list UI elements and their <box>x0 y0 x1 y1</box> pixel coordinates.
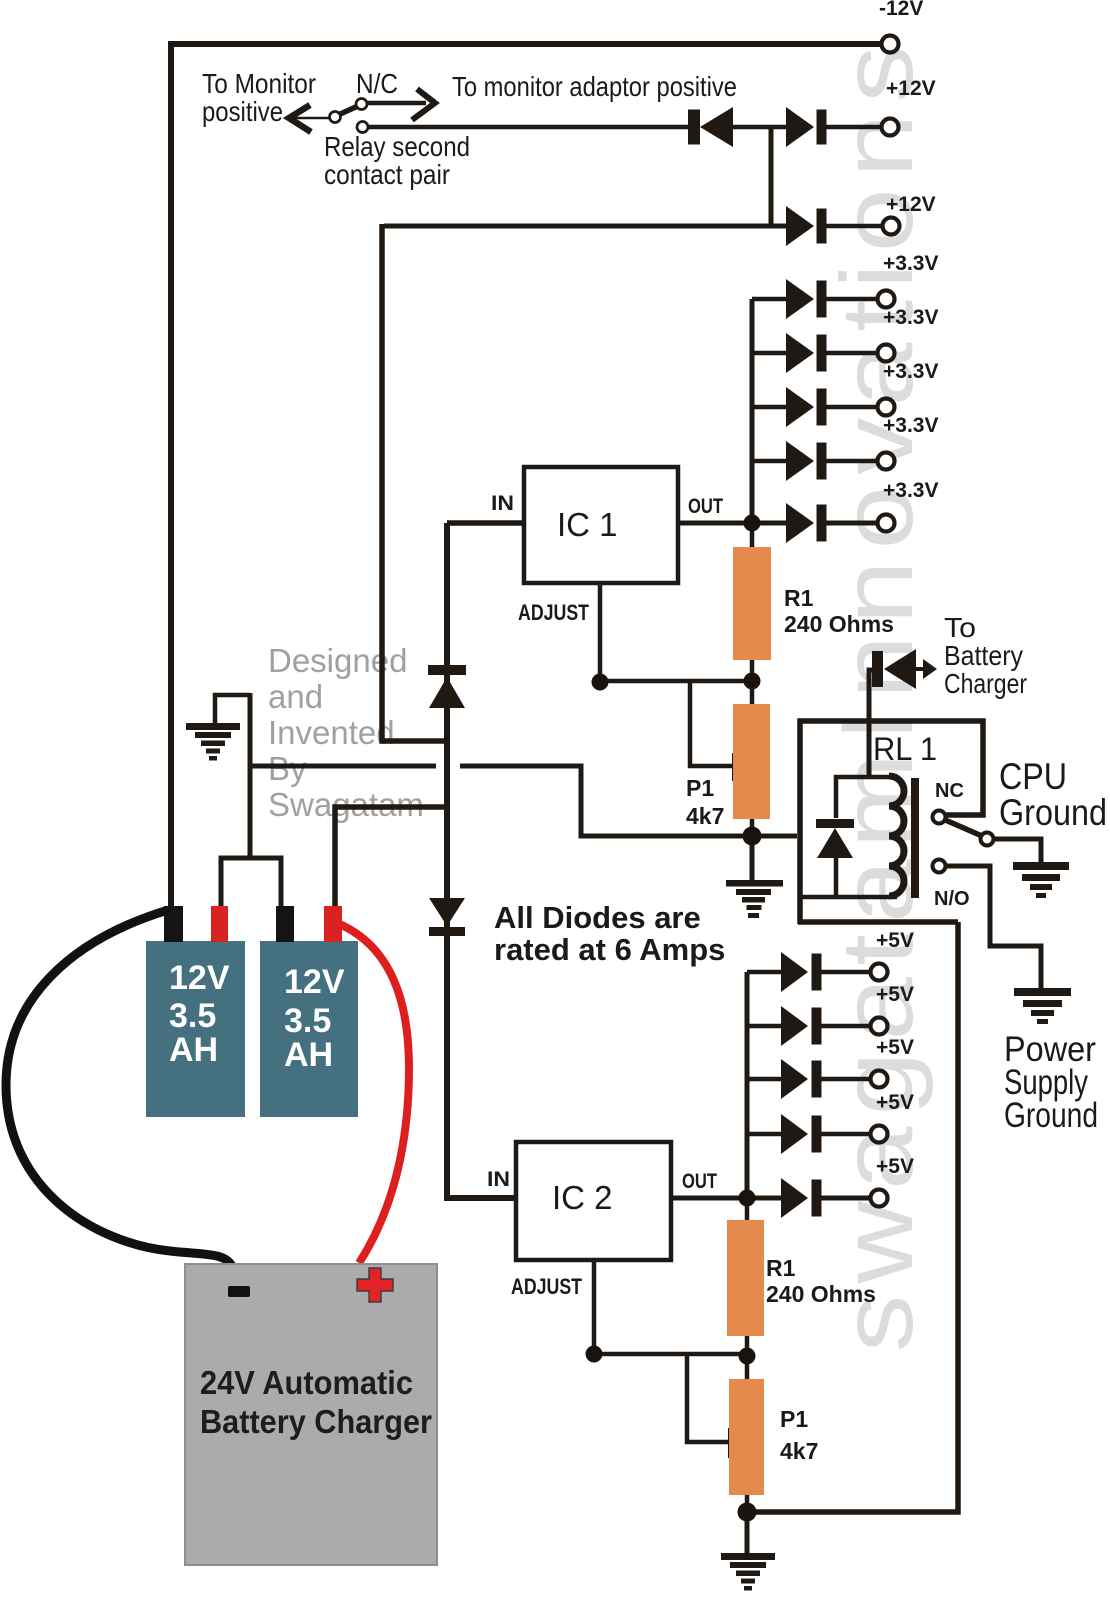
wire P1 top stub <box>750 681 755 704</box>
wire battery series link U <box>221 858 281 906</box>
svg-text:3.5: 3.5 <box>284 1002 331 1040</box>
svg-text:OUT: OUT <box>688 495 723 518</box>
svg-text:+5V: +5V <box>876 983 914 1006</box>
diode D9 series up to IC1 IN <box>428 665 466 675</box>
svg-text:To monitor adaptor positive: To monitor adaptor positive <box>452 71 737 102</box>
diode D1 battery isolation (points left) <box>688 110 700 145</box>
battery 1 positive terminal <box>211 906 228 942</box>
svg-text:+3.3V: +3.3V <box>883 306 938 329</box>
wire IC1 OUT row <box>678 521 876 526</box>
terminal +12V 2 <box>883 218 900 235</box>
svg-text:AH: AH <box>169 1031 218 1069</box>
svg-text:Battery Charger: Battery Charger <box>200 1403 432 1440</box>
battery 2 label 12V 3.5 AH <box>284 963 345 1074</box>
terminal +3.3V 4 <box>878 453 895 470</box>
svg-text:CPU: CPU <box>999 756 1067 797</box>
svg-text:To Monitor: To Monitor <box>202 68 316 99</box>
svg-text:24V Automatic: 24V Automatic <box>200 1364 413 1401</box>
contact N/O <box>933 860 946 873</box>
battery 2 negative terminal <box>276 906 294 942</box>
node R1/P1 junction <box>744 673 761 690</box>
ground CPU <box>1013 862 1069 898</box>
svg-text:-12V: -12V <box>879 0 923 20</box>
svg-text:+5V: +5V <box>876 1155 914 1178</box>
op-amp regulator IC1 box <box>524 467 678 583</box>
node P1-2 ground junction <box>738 1503 757 1522</box>
svg-text:240 Ohms: 240 Ohms <box>784 611 894 637</box>
diode D8 +3.3V row 5 <box>786 503 814 543</box>
node IC1 OUT junction <box>744 515 761 532</box>
wire between D1 and D2 <box>733 125 786 130</box>
svg-text:240 Ohms: 240 Ohms <box>766 1281 876 1307</box>
note Designed and Invented By Swagatam <box>268 642 424 823</box>
terminal +3.3V 5 <box>878 515 895 532</box>
svg-text:12V: 12V <box>169 959 230 997</box>
svg-text:rated at 6 Amps: rated at 6 Amps <box>494 932 725 967</box>
wire 5V row 2 <box>747 1024 869 1029</box>
arrowhead chevron to monitor adaptor positive <box>412 89 435 120</box>
arrowhead chevron to monitor positive <box>289 105 311 132</box>
ground power supply <box>1014 988 1071 1024</box>
svg-text:P1: P1 <box>780 1406 808 1432</box>
wire battery ground stub <box>215 695 250 723</box>
watermark swagatamInnovations <box>820 34 934 1352</box>
svg-text:To: To <box>944 612 976 643</box>
charger minus symbol <box>228 1286 250 1297</box>
svg-text:+3.3V: +3.3V <box>883 479 938 502</box>
diode D12 relay flyback <box>816 819 854 828</box>
diode D6 +3.3V row 3 <box>786 387 814 427</box>
wire switch blade <box>338 106 358 115</box>
wire main IN vertical x447 with series diodes to IC2 IN <box>447 523 516 1198</box>
relay core bar <box>911 778 919 898</box>
switch common contact <box>330 112 341 123</box>
wire flyback loop bottom <box>800 858 897 897</box>
battery 1 label 12V 3.5 AH <box>169 959 230 1069</box>
wire R1 bottom stub <box>750 660 755 681</box>
diode D2 +12V row 1 <box>786 107 814 147</box>
diode D13 +5V row 1 <box>781 952 808 992</box>
op-amp regulator IC2 box <box>516 1142 671 1260</box>
black cable battery1 negative to charger minus <box>6 910 233 1268</box>
node IC2 ADJUST junction <box>586 1346 603 1363</box>
wire adaptor feed vertical x382 down to IN node <box>382 224 447 741</box>
svg-text:and: and <box>268 678 323 715</box>
svg-text:IN: IN <box>491 492 514 515</box>
wire P1-2 ground stem <box>745 1512 750 1553</box>
svg-text:Ground: Ground <box>999 792 1107 833</box>
svg-text:+12V: +12V <box>886 193 936 216</box>
node R1-2/P1-2 junction <box>739 1348 756 1365</box>
terminal +5V 4 <box>871 1126 888 1143</box>
wire pole to CPU ground <box>993 839 1041 863</box>
diode D7 +3.3V row 4 <box>786 441 814 481</box>
battery 2 positive terminal <box>324 906 342 942</box>
wire battery center tap vertical <box>248 693 253 857</box>
svg-text:+3.3V: +3.3V <box>883 360 938 383</box>
svg-text:AH: AH <box>284 1036 333 1074</box>
svg-text:Relay second: Relay second <box>324 131 470 162</box>
svg-text:positive: positive <box>202 96 283 127</box>
junction dots <box>586 515 762 1522</box>
wire 3.3V row 2 <box>752 351 876 356</box>
svg-text:+3.3V: +3.3V <box>883 252 938 275</box>
node IC2 OUT junction <box>739 1190 756 1207</box>
wire 5V row 3 <box>747 1077 869 1082</box>
diode D10 series down to IC2 IN <box>429 898 465 926</box>
wire 3.3V row 1 <box>752 297 876 302</box>
wire P1 ground stem <box>750 836 755 881</box>
svg-text:ADJUST: ADJUST <box>518 600 589 625</box>
svg-text:4k7: 4k7 <box>780 1438 818 1464</box>
wire -12V top rail and left vertical to battery 1 negative <box>171 44 880 908</box>
svg-text:IN: IN <box>487 1168 510 1191</box>
wire P1-2 wiper tick <box>728 1428 734 1458</box>
svg-text:12V: 12V <box>284 963 345 1001</box>
switch second contact <box>357 122 368 133</box>
terminal +5V 5 <box>871 1190 888 1207</box>
wire R1 top stub <box>750 523 755 547</box>
terminal +3.3V 2 <box>878 345 895 362</box>
wire battery2 positive to IN node <box>335 807 447 906</box>
wire 3.3V row 3 <box>752 405 876 410</box>
svg-text:Invented: Invented <box>268 714 395 751</box>
resistor R1 (IC1) 240 Ohms <box>733 547 771 660</box>
wire IC2 OUT row <box>671 1196 869 1201</box>
output terminals <box>871 36 900 1207</box>
wire P1 wiper loop <box>690 683 733 766</box>
wire P1-2 wiper loop <box>687 1356 729 1442</box>
svg-text:IC 1: IC 1 <box>557 506 618 543</box>
wire charger diode arrow line <box>916 667 927 671</box>
battery 1 12V 3.5AH <box>146 941 245 1117</box>
node P1 ground junction <box>743 827 762 846</box>
diode D4 +3.3V row 1 <box>786 279 814 319</box>
terminal -12V <box>882 36 899 53</box>
wire switch common to To-Monitor arrow <box>292 117 332 120</box>
contact NC <box>933 811 946 824</box>
svg-text:RL 1: RL 1 <box>873 731 937 767</box>
24V automatic battery charger box <box>185 1264 437 1565</box>
diode D5 +3.3V row 2 <box>786 333 814 373</box>
potentiometer P1 (IC1) 4k7 <box>733 704 770 819</box>
diode D3 +12V row 2 <box>786 206 814 246</box>
svg-text:P1: P1 <box>686 775 714 801</box>
svg-text:OUT: OUT <box>682 1170 717 1193</box>
terminal +5V 3 <box>871 1071 888 1088</box>
potentiometer P1 (IC2) 4k7 <box>729 1379 764 1495</box>
svg-text:Battery: Battery <box>944 640 1023 671</box>
wire junction vertical +12V rows <box>769 125 774 226</box>
ground battery center tap <box>186 723 240 761</box>
wire 5V row 1 <box>747 970 869 975</box>
diode D17 +5V row 5 <box>781 1178 808 1218</box>
wire P1-2 bottom stub <box>745 1495 750 1514</box>
svg-text:3.5: 3.5 <box>169 997 216 1035</box>
diode D16 +5V row 4 <box>781 1114 808 1154</box>
svg-text:Designed: Designed <box>268 642 407 679</box>
switch N/C contact <box>356 99 367 110</box>
terminal +3.3V 3 <box>878 399 895 416</box>
battery 1 negative terminal <box>164 906 183 942</box>
wire +5V bus vertical <box>745 972 750 1198</box>
svg-text:Ground: Ground <box>1004 1096 1098 1135</box>
diode D11 to battery charger (points left) <box>872 651 883 687</box>
terminal +12V 1 <box>882 119 899 136</box>
wire D3 to +12V terminal 2 <box>826 224 881 229</box>
ground P1 IC1 <box>726 880 783 918</box>
wire P1 bottom stub <box>750 819 755 838</box>
wire 5V row 4 <box>747 1132 869 1137</box>
relay second contact pair switch <box>330 99 369 133</box>
wire relay coil feed vertical <box>869 670 873 777</box>
wire IC2 ADJUST pin <box>592 1258 597 1354</box>
arrowhead to battery charger <box>923 659 937 679</box>
wire relay box outline <box>798 721 983 924</box>
wire IC1 ADJUST to R1 bottom <box>600 679 752 684</box>
wire N/O to power supply ground <box>945 866 1041 989</box>
svg-text:N/C: N/C <box>356 68 398 99</box>
charger plus symbol <box>357 1268 393 1302</box>
wire relay pole blade <box>943 819 982 836</box>
relay RL1 contacts <box>933 811 994 873</box>
svg-text:+5V: +5V <box>876 929 914 952</box>
diode D14 +5V row 2 <box>781 1006 808 1046</box>
wire NC contact to box <box>945 813 983 818</box>
wire ground link left segment <box>252 764 436 769</box>
wire +12V adaptor row <box>384 224 786 229</box>
ground P1 IC2 <box>721 1553 775 1591</box>
svg-text:+12V: +12V <box>886 77 936 100</box>
wire R1-2 bottom stub <box>745 1336 750 1356</box>
svg-text:IC 2: IC 2 <box>552 1179 613 1216</box>
svg-text:contact pair: contact pair <box>324 159 450 190</box>
contact pole <box>981 833 994 846</box>
wire flyback loop top and coil top <box>836 777 889 818</box>
resistor R1 (IC2) 240 Ohms <box>727 1220 764 1336</box>
wire ground link right segment to relay <box>460 766 797 836</box>
wire P1 wiper tick <box>732 753 738 781</box>
node IC1 ADJUST junction <box>592 674 609 691</box>
terminal +5V 2 <box>871 1018 888 1035</box>
wire 3.3V row 4 <box>752 459 876 464</box>
wire IC2 ADJUST to R1 bottom <box>594 1352 747 1357</box>
svg-text:R1: R1 <box>784 585 814 611</box>
svg-text:+5V: +5V <box>876 1091 914 1114</box>
wire R1-2 top stub <box>745 1198 750 1220</box>
terminal +5V 1 <box>871 964 888 981</box>
svg-text:4k7: 4k7 <box>686 803 724 829</box>
svg-text:ADJUST: ADJUST <box>511 1274 582 1299</box>
svg-text:NC: NC <box>935 780 964 802</box>
svg-text:+3.3V: +3.3V <box>883 414 938 437</box>
wire IC1 ADJUST pin <box>598 583 603 682</box>
wire +3.3V bus vertical <box>750 299 755 523</box>
coil RL1 <box>889 776 904 896</box>
wire N/C contact to adaptor arrow <box>366 101 426 106</box>
red cable battery2 positive to charger plus <box>337 923 409 1263</box>
wire D2 to +12V terminal <box>826 125 880 130</box>
wire relay right vertical to P1-2 bottom <box>747 922 958 1512</box>
svg-text:+5V: +5V <box>876 1036 914 1059</box>
svg-text:R1: R1 <box>766 1255 796 1281</box>
wire IC1 IN <box>447 520 524 526</box>
svg-text:N/O: N/O <box>934 888 970 910</box>
wire relay second contact to +12V diode D1 <box>367 125 688 130</box>
terminal +3.3V 1 <box>878 291 895 308</box>
svg-text:All Diodes are: All Diodes are <box>494 900 701 935</box>
diode D15 +5V row 3 <box>781 1059 808 1099</box>
svg-text:Charger: Charger <box>944 668 1027 699</box>
wire P1-2 top stub <box>745 1356 750 1379</box>
battery 2 12V 3.5AH <box>260 941 358 1117</box>
